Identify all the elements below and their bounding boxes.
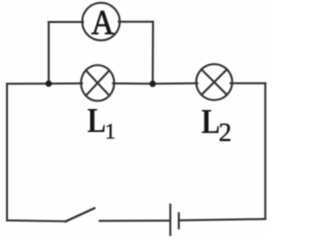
wire bottom left segment: [7, 219, 66, 222]
svg-text:2: 2: [219, 118, 232, 147]
svg-text:L: L: [87, 101, 106, 140]
battery B1 positive plate: [169, 205, 171, 235]
wire top-left bus: [7, 83, 49, 85]
wire ammeter left lead: [49, 21, 83, 23]
wire left drop to node: [48, 22, 50, 84]
svg-text:1: 1: [105, 119, 116, 144]
battery B1 negative plate: [178, 213, 180, 228]
ammeter A1: [82, 3, 120, 41]
lamp L1: [81, 65, 114, 101]
lamp L2: [196, 64, 232, 100]
label L1: [87, 101, 116, 144]
label L2: [201, 102, 231, 147]
svg-text:L: L: [201, 102, 220, 141]
switch S1 lever: [66, 208, 95, 221]
wire right node to lamp L2: [153, 82, 198, 84]
wire ammeter right lead: [119, 21, 153, 23]
wire L2 to right corner: [231, 82, 266, 84]
svg-text:A: A: [91, 4, 114, 43]
wire bottom right segment: [180, 219, 265, 220]
wire battery to switch: [100, 220, 170, 222]
wire L1 to right node: [113, 82, 153, 84]
wire right drop to node: [152, 22, 154, 84]
wire right vertical: [264, 83, 266, 219]
node junction right: [150, 81, 156, 87]
node junction left: [46, 80, 52, 86]
wire left vertical: [6, 84, 8, 221]
wire node to lamp L1: [49, 82, 82, 84]
